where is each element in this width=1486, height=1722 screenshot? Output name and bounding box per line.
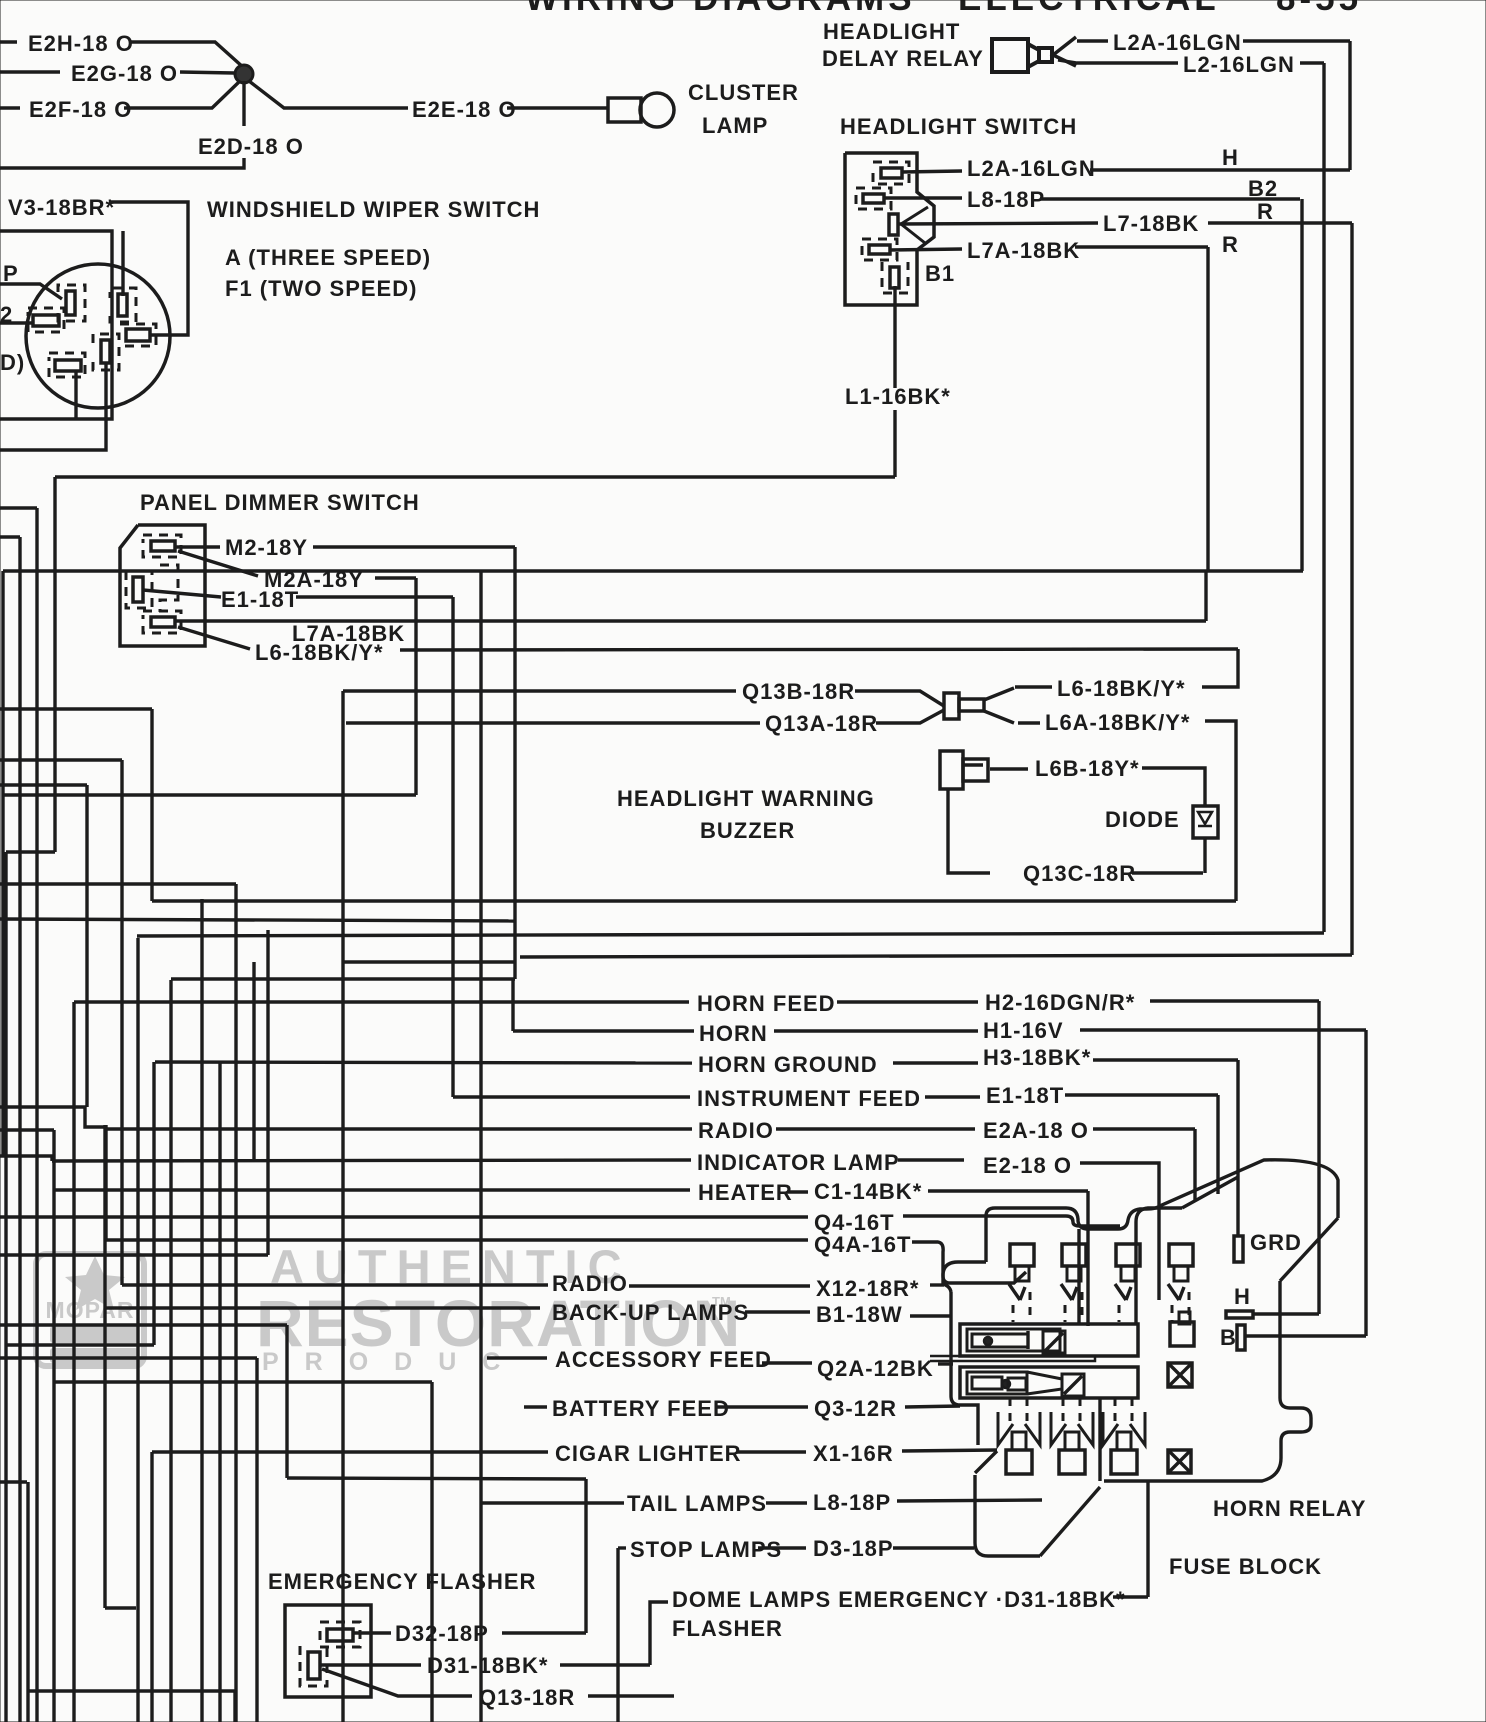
wire C1 right <box>928 1189 1088 1192</box>
L6B connector inner line <box>963 763 983 766</box>
wire INDICATOR left <box>52 1160 691 1161</box>
wire E2F to junction <box>124 81 240 108</box>
fuse row1 lip <box>930 1356 1095 1361</box>
vertical x171 <box>169 980 172 1722</box>
wire pin D drop <box>74 371 77 419</box>
wire pin B to L8 label <box>884 196 962 199</box>
wire buzzer box bottom y935 <box>137 933 1324 936</box>
delay relay connector tip <box>1039 48 1052 62</box>
fuse clip top 1 dashes <box>1012 1305 1015 1322</box>
wire HORN right <box>774 1029 978 1032</box>
svg-text:Q3-12R: Q3-12R <box>814 1396 897 1421</box>
wire D31 from pin <box>320 1663 421 1666</box>
vertical x236 <box>234 884 237 1722</box>
wire pin D to L7A label <box>890 249 962 250</box>
wire row y979 <box>171 977 515 980</box>
wire E2A vertical <box>1193 1129 1196 1200</box>
vertical from E1 <box>451 597 454 1097</box>
wire H3 right <box>1093 1058 1238 1061</box>
wire pin B drop <box>121 231 124 296</box>
wire E2D upper <box>242 81 245 126</box>
svg-text:L6-18BK/Y*: L6-18BK/Y* <box>255 640 384 665</box>
wire L1 horizontal <box>55 475 895 478</box>
pin V3 blade <box>126 329 150 341</box>
svg-text:HORN: HORN <box>699 1021 768 1046</box>
wire stub x20 <box>0 535 20 538</box>
wire stub y1482 <box>0 1480 27 1483</box>
vertical x152 upper <box>150 709 153 901</box>
wire D32 dash <box>353 1631 391 1634</box>
dimmer pin 1 <box>151 541 175 551</box>
svg-text:HORN GROUND: HORN GROUND <box>698 1052 878 1077</box>
flasher pin 2 slot <box>308 1652 320 1679</box>
wire BACKUP left <box>105 1306 540 1309</box>
fuse clip bottom 3 <box>1103 1412 1118 1445</box>
svg-text:Q2A-12BK: Q2A-12BK <box>817 1356 934 1381</box>
wire Q13C right <box>1132 871 1203 874</box>
wire pin A to L2A label <box>902 171 962 172</box>
wire row y1325 <box>0 1323 287 1326</box>
svg-text:D3-18P: D3-18P <box>813 1536 894 1561</box>
wire H1 vertical <box>1364 1030 1367 1336</box>
fuse clip top 3 <box>1116 1244 1140 1266</box>
vertical x513 horn <box>511 979 514 1031</box>
headlight switch connector outline <box>845 153 934 305</box>
wire L2 from chevron <box>1058 60 1178 63</box>
switch pin E slot <box>890 267 899 288</box>
pin center slot <box>101 340 110 363</box>
wire RADIO1 right <box>776 1127 975 1130</box>
GRD terminal <box>1234 1236 1243 1262</box>
wire pin1 to M2 label <box>175 545 220 548</box>
wire E2H to junction <box>130 42 244 68</box>
jog y852 left <box>6 850 55 853</box>
svg-text:A (THREE SPEED): A (THREE SPEED) <box>225 245 431 270</box>
wire HORN GROUND right <box>893 1061 978 1064</box>
vertical x55 (big box left) <box>53 477 56 852</box>
svg-text:L8-18P: L8-18P <box>813 1490 891 1515</box>
wire D3 dash <box>758 1546 806 1549</box>
svg-text:D32-18P: D32-18P <box>395 1621 489 1646</box>
svg-text:FLASHER: FLASHER <box>672 1616 783 1641</box>
svg-text:BACK-UP LAMPS: BACK-UP LAMPS <box>552 1300 749 1325</box>
wire ACCESSORY dash left <box>487 1356 547 1359</box>
wire L2A corner down <box>1348 41 1351 170</box>
wire BATTERY dash left <box>524 1405 547 1408</box>
flasher pin 1 <box>327 1629 353 1641</box>
wire L6 diagonal from pin3 <box>178 627 250 649</box>
vertical x138 <box>136 938 139 1722</box>
wire H2 right <box>1150 999 1319 1002</box>
svg-text:L2-16LGN: L2-16LGN <box>1183 52 1295 77</box>
wire Q2A dash <box>762 1361 812 1364</box>
wire pin center drop <box>0 363 106 450</box>
wire row y571 <box>3 569 1303 572</box>
wire stub y709 <box>0 707 152 710</box>
vertical L7A join <box>1204 571 1207 621</box>
X-box lower <box>1168 1450 1191 1473</box>
B terminal bar <box>1237 1325 1245 1350</box>
cluster lamp bulb <box>640 93 674 127</box>
fuse block right edge <box>1104 1281 1311 1481</box>
wire E2F stub <box>0 106 20 109</box>
svg-text:C1-14BK*: C1-14BK* <box>814 1179 922 1204</box>
switch pin D <box>869 245 890 254</box>
svg-text:ELECTRICAL: ELECTRICAL <box>958 0 1220 18</box>
wire STOP bracket <box>616 1548 619 1722</box>
svg-text:H3-18BK*: H3-18BK* <box>983 1045 1091 1070</box>
pin B bracket <box>110 288 136 322</box>
wire L2A right <box>1243 39 1350 42</box>
wire E2A right <box>1093 1127 1195 1130</box>
wire HORN left <box>513 1029 694 1032</box>
wire X1 dash <box>737 1450 806 1453</box>
vertical x586 <box>584 1479 587 1633</box>
diode body <box>1193 806 1218 838</box>
vertical x287 <box>285 1325 288 1478</box>
svg-text:BATTERY FEED: BATTERY FEED <box>552 1396 730 1421</box>
wire Q4 right <box>903 1216 1120 1226</box>
wire row y1478 <box>287 1478 586 1479</box>
svg-text:H2-16DGN/R*: H2-16DGN/R* <box>985 990 1135 1015</box>
vertical from M2A <box>414 578 417 795</box>
fuse clip top 3 dashes <box>1118 1305 1121 1322</box>
diode symbol <box>1198 812 1212 826</box>
dimmer connector outline <box>120 525 205 646</box>
fuse cartridge row2 body <box>967 1372 1027 1394</box>
bottom-left rectangle <box>26 1482 29 1722</box>
switch pin B <box>863 194 884 203</box>
svg-text:WIRING DIAGRAMS: WIRING DIAGRAMS <box>525 0 916 18</box>
wire E1 from pin2 <box>143 590 221 597</box>
buzzer connector chevron upper <box>984 688 1014 700</box>
dimmer inner dashes <box>160 565 178 612</box>
wire CIGAR left <box>152 1450 548 1453</box>
svg-text:V3-18BR*: V3-18BR* <box>8 195 115 220</box>
wire Q13A row <box>346 721 760 724</box>
vertical x220 <box>218 1063 221 1722</box>
svg-text:L1-16BK*: L1-16BK* <box>845 384 951 409</box>
wire far-left vertical <box>1 571 4 1156</box>
wire H3 diagonal <box>1182 1177 1238 1208</box>
fuse block vertical x1100 <box>1098 1397 1101 1481</box>
fuse block X1 notch <box>975 1451 997 1473</box>
vertical x122 <box>120 760 123 1285</box>
fuse clip top 2 dashes <box>1064 1305 1067 1322</box>
vertical x481 long <box>479 571 482 1722</box>
wire L7 right <box>1208 221 1352 224</box>
wire L1 vertical upper <box>893 286 896 388</box>
fuse block left edge upper <box>943 1262 986 1292</box>
wire Q13 diagonal <box>322 1669 472 1696</box>
svg-text:INSTRUMENT FEED: INSTRUMENT FEED <box>697 1086 921 1111</box>
fuse row2 slash box <box>1062 1374 1084 1396</box>
wire L8 dash <box>766 1501 807 1504</box>
wire D31 right <box>1113 1595 1148 1598</box>
svg-text:CLUSTER: CLUSTER <box>688 80 799 105</box>
buzzer connector chevron lower <box>984 711 1014 723</box>
wire INSTRUMENT FEED left <box>453 1095 690 1098</box>
svg-text:INDICATOR LAMP: INDICATOR LAMP <box>697 1150 900 1175</box>
svg-text:HEATER: HEATER <box>698 1180 793 1205</box>
switch pin D bracket <box>862 239 897 260</box>
vertical x54 lower <box>52 1130 55 1722</box>
wire STOP tick <box>618 1546 626 1549</box>
svg-text:E2D-18 O: E2D-18 O <box>198 134 304 159</box>
fuse block left edge lower <box>951 1292 978 1445</box>
svg-text:HEADLIGHT: HEADLIGHT <box>823 19 960 44</box>
wire RADIO2 mid <box>629 1284 810 1287</box>
switch pin C slot <box>889 214 898 235</box>
svg-text:R: R <box>1222 232 1239 257</box>
wire row y1255 <box>0 1253 268 1256</box>
wire H3 wavy left <box>1136 1208 1182 1324</box>
svg-text:FUSE BLOCK: FUSE BLOCK <box>1169 1554 1322 1579</box>
wire L2 vertical long <box>1322 63 1325 932</box>
wire Q2A right <box>938 1362 953 1365</box>
wire E2E to cluster lamp <box>507 106 608 109</box>
vertical x37 <box>35 508 38 1722</box>
svg-text:X12-18R*: X12-18R* <box>816 1276 919 1301</box>
wire M2 right <box>313 545 515 548</box>
svg-text:RADIO: RADIO <box>552 1271 628 1296</box>
vertical x87 <box>85 785 88 1107</box>
svg-text:Q13B-18R: Q13B-18R <box>742 679 855 704</box>
svg-text:L6A-18BK/Y*: L6A-18BK/Y* <box>1045 710 1190 735</box>
wire L7A right <box>1075 245 1208 248</box>
jog y1156 <box>0 1156 52 1161</box>
fuse clip bottom 2 dashes <box>1062 1398 1065 1428</box>
svg-text:Q13-18R: Q13-18R <box>479 1685 575 1710</box>
svg-text:MOPAR: MOPAR <box>46 1297 135 1323</box>
jog y1107 <box>0 1107 105 1127</box>
wire row y919 <box>0 919 515 921</box>
wire diode to Q13C <box>1203 838 1206 873</box>
wire C1 vertical <box>1086 1191 1089 1326</box>
flasher connector box <box>285 1605 371 1697</box>
pin 2 blade <box>33 315 59 326</box>
wire L6B dash <box>990 767 1028 770</box>
wire E1 fuse right <box>1065 1093 1218 1096</box>
wire to L2A label <box>1077 39 1108 42</box>
vertical x105 <box>103 1125 106 1608</box>
wire stub y1130 <box>0 1128 54 1131</box>
svg-text:R: R <box>1257 199 1274 224</box>
wire H3 vertical <box>1236 1060 1239 1236</box>
svg-text:8-55: 8-55 <box>1276 0 1362 18</box>
delay relay chevron <box>1053 37 1076 66</box>
fuse cartridge row1 outline <box>960 1324 1138 1356</box>
wire H1 right <box>1080 1028 1366 1031</box>
pin D blade <box>55 360 81 371</box>
wire HEATER dash <box>787 1190 808 1193</box>
wire H to vertical <box>1253 1312 1319 1315</box>
svg-text:DIODE: DIODE <box>1105 807 1180 832</box>
svg-text:H1-16V: H1-16V <box>983 1018 1064 1043</box>
wire Q4 row left <box>0 1215 808 1218</box>
vertical x268 <box>266 930 269 1255</box>
wire Q13A to connector <box>876 710 944 723</box>
wire D31 vertical <box>1146 1482 1149 1597</box>
wire HORN FEED left <box>74 1000 689 1003</box>
wire D31 mid <box>560 1663 650 1666</box>
svg-text:HEADLIGHT SWITCH: HEADLIGHT SWITCH <box>840 114 1077 139</box>
dimmer pin 1 bracket <box>143 535 181 557</box>
wire row y1345 <box>6 1343 154 1346</box>
svg-text:L7-18BK: L7-18BK <box>1103 211 1199 236</box>
vertical x257 <box>255 1358 258 1722</box>
svg-text:Q4A-16T: Q4A-16T <box>814 1232 911 1257</box>
svg-text:WINDSHIELD WIPER SWITCH: WINDSHIELD WIPER SWITCH <box>207 197 540 222</box>
jog x515 <box>513 962 516 979</box>
svg-text:HEADLIGHT WARNING: HEADLIGHT WARNING <box>617 786 875 811</box>
dimmer pin 3 bracket <box>143 611 181 633</box>
wire M2A return left <box>3 793 416 796</box>
wire INSTRUMENT right <box>925 1095 980 1098</box>
svg-text:PANEL DIMMER SWITCH: PANEL DIMMER SWITCH <box>140 490 420 515</box>
svg-text:B: B <box>1220 1325 1237 1350</box>
svg-text:EMERGENCY FLASHER: EMERGENCY FLASHER <box>268 1569 536 1594</box>
svg-text:H: H <box>1222 145 1239 170</box>
svg-text:B1: B1 <box>925 261 955 286</box>
wire E2D lower <box>0 158 244 168</box>
wire L7 vertical long <box>1350 223 1353 955</box>
svg-text:HORN RELAY: HORN RELAY <box>1213 1496 1366 1521</box>
svg-text:HORN FEED: HORN FEED <box>697 991 836 1016</box>
vertical x343 <box>341 691 344 1722</box>
wire BATTERY right <box>716 1405 808 1408</box>
dimmer pin 2 slot <box>133 577 143 602</box>
svg-text:E2G-18 O: E2G-18 O <box>71 61 178 86</box>
wire L6 row (buzzer box top) <box>400 649 1238 650</box>
fuse clip bottom 2 <box>1051 1412 1066 1445</box>
vertical x20 <box>18 537 21 1722</box>
svg-text:BUZZER: BUZZER <box>700 818 795 843</box>
wire Q13B row <box>343 689 736 692</box>
vertical x432 <box>430 1382 433 1722</box>
fuse block bottom-left diagonal <box>1040 1487 1100 1556</box>
wire L1 vertical lower <box>893 410 896 477</box>
svg-text:L7A-18BK: L7A-18BK <box>967 238 1080 263</box>
wire L7A dimmer row <box>175 619 1206 622</box>
wire E2H stub <box>0 40 17 43</box>
pin P slot <box>66 291 75 315</box>
wire D32 right <box>502 1631 586 1634</box>
svg-text:DOME LAMPS EMERGENCY ·D31-1: DOME LAMPS EMERGENCY ·D31-18BK* <box>672 1587 1126 1612</box>
wire L8 right <box>1040 197 1300 200</box>
pin V3 bracket <box>120 324 156 346</box>
fuse clip top 4 <box>1169 1244 1193 1266</box>
svg-text:E1-18T: E1-18T <box>986 1083 1064 1108</box>
wire L8 right <box>897 1500 1042 1501</box>
wire HORN FEED right <box>837 1000 978 1003</box>
svg-text:E1-18T: E1-18T <box>221 587 299 612</box>
wire stub y785 <box>0 783 87 786</box>
wire Q3 right <box>905 1406 960 1407</box>
wire Q13B to connector <box>855 691 944 706</box>
wire M2A right <box>375 576 416 579</box>
svg-text:L8-18P: L8-18P <box>967 187 1045 212</box>
pin D bracket <box>49 353 85 377</box>
pin 2 bracket <box>28 308 64 332</box>
wire HEATER/C1 left <box>55 1188 690 1191</box>
svg-text:Q13C-18R: Q13C-18R <box>1023 861 1136 886</box>
fuse row1 slash box <box>1043 1331 1065 1353</box>
wire Q4A row left <box>106 1238 808 1241</box>
switch pin E bracket <box>882 262 908 293</box>
delay relay connector taper <box>1028 44 1039 67</box>
wire INDICATOR right <box>898 1158 964 1161</box>
wire stub y884 <box>0 882 236 885</box>
wire stub y760 <box>0 758 122 761</box>
wire row y1382 <box>55 1380 432 1383</box>
wire stub x37 <box>0 506 37 509</box>
pin B slot <box>118 294 127 316</box>
svg-text:B2: B2 <box>1248 176 1278 201</box>
wire P to pin <box>0 284 62 299</box>
wiper switch box <box>0 231 112 419</box>
wire row y962 <box>343 960 515 963</box>
svg-text:GRD: GRD <box>1250 1230 1302 1255</box>
wire L6B right <box>1142 768 1205 806</box>
wire D3 right <box>893 1546 974 1549</box>
wire L2 right <box>1300 61 1324 64</box>
L6B connector inner <box>963 759 988 781</box>
svg-text:H: H <box>1234 1284 1251 1309</box>
H terminal bar <box>1226 1311 1253 1318</box>
node junction dot <box>235 65 253 83</box>
vertical x74 <box>72 1002 75 1722</box>
wire B2 vertical <box>1300 199 1303 571</box>
wire L6A right <box>1205 721 1236 901</box>
wire B row <box>1245 1334 1366 1337</box>
wire 2 to pin <box>0 321 33 324</box>
switch pin A bracket <box>873 162 909 184</box>
wire RADIO2 left <box>122 1283 548 1286</box>
svg-text:E2-18 O: E2-18 O <box>983 1153 1072 1178</box>
svg-text:L6B-18Y*: L6B-18Y* <box>1035 756 1140 781</box>
vertical x154 <box>152 1062 155 1345</box>
svg-text:E2F-18 O: E2F-18 O <box>29 97 132 122</box>
wire Q13 right <box>588 1694 674 1697</box>
wire box bottom y955 <box>520 955 1352 957</box>
wire B1 dash <box>745 1310 810 1313</box>
wire TAIL left <box>481 1501 624 1504</box>
switch pin B bracket <box>856 188 891 209</box>
wire row y900 <box>152 899 1236 902</box>
buzzer inline connector tip <box>959 699 984 711</box>
pin P bracket <box>58 285 85 321</box>
fuse cartridge row2 outline <box>960 1367 1138 1398</box>
svg-text:E2A-18 O: E2A-18 O <box>983 1118 1089 1143</box>
wire L6A dash <box>1018 721 1040 724</box>
fuse clip top 1 <box>1010 1244 1034 1266</box>
fuse block ear right edge <box>1077 1229 1080 1324</box>
delay relay connector body <box>992 39 1028 72</box>
svg-text:E2E-18 O: E2E-18 O <box>412 97 517 122</box>
pin center bracket <box>93 334 119 370</box>
wire E1 right <box>296 595 453 598</box>
switch pin A <box>881 168 902 178</box>
fuse cartridge row1 body <box>967 1329 1060 1351</box>
fuse clip bottom 1 dashes <box>1009 1398 1012 1428</box>
svg-text:D): D) <box>0 350 25 375</box>
flasher pin2 bracket <box>300 1646 327 1686</box>
fuse clip bottom 3 dashes <box>1114 1398 1117 1428</box>
svg-text:PRODUC: PRODUC <box>262 1348 526 1376</box>
svg-text:M2-18Y: M2-18Y <box>225 535 308 560</box>
svg-text:B1-18W: B1-18W <box>816 1302 903 1327</box>
